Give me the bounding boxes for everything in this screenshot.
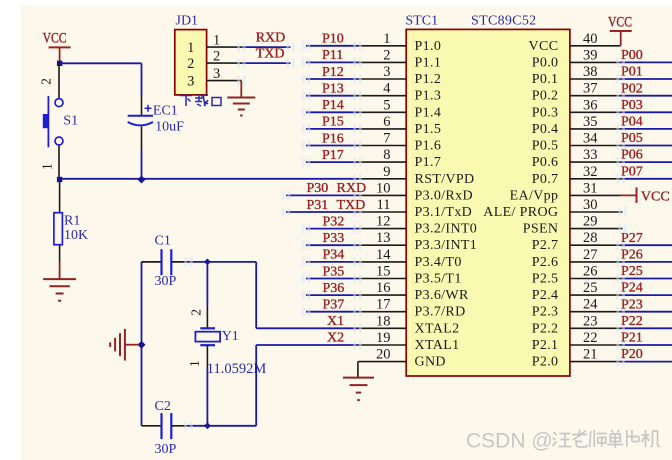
svg-text:P2.5: P2.5 <box>532 272 559 287</box>
svg-text:19: 19 <box>376 330 391 346</box>
svg-text:JD1: JD1 <box>176 13 199 28</box>
svg-text:P04: P04 <box>621 115 643 130</box>
svg-text:36: 36 <box>583 97 598 113</box>
svg-text:4: 4 <box>383 81 391 97</box>
svg-text:RXD: RXD <box>256 31 286 46</box>
svg-text:30: 30 <box>583 197 598 213</box>
svg-text:P14: P14 <box>322 98 344 113</box>
svg-text:P01: P01 <box>621 65 643 80</box>
svg-text:P2.2: P2.2 <box>532 321 559 336</box>
svg-text:23: 23 <box>583 313 598 329</box>
svg-text:C1: C1 <box>155 234 171 249</box>
svg-text:28: 28 <box>583 230 598 246</box>
svg-text:1: 1 <box>187 40 194 56</box>
svg-text:22: 22 <box>583 330 598 346</box>
svg-text:P1.0: P1.0 <box>415 39 442 54</box>
svg-text:P11: P11 <box>322 48 343 63</box>
svg-text:14: 14 <box>376 247 391 263</box>
svg-text:P25: P25 <box>621 264 643 279</box>
svg-text:P1.4: P1.4 <box>415 105 442 120</box>
svg-text:38: 38 <box>583 64 598 80</box>
svg-text:P32: P32 <box>323 214 345 229</box>
svg-text:VCC: VCC <box>641 189 670 204</box>
svg-text:EC1: EC1 <box>153 104 178 119</box>
svg-text:P00: P00 <box>621 48 643 63</box>
svg-text:21: 21 <box>583 347 598 363</box>
svg-text:C2: C2 <box>155 399 171 414</box>
svg-text:P0.5: P0.5 <box>532 139 559 154</box>
svg-text:P0.2: P0.2 <box>532 89 559 104</box>
svg-text:P0.4: P0.4 <box>532 122 559 137</box>
svg-text:1: 1 <box>40 163 55 170</box>
svg-text:P2.0: P2.0 <box>532 355 559 370</box>
svg-text:TXD: TXD <box>256 47 285 62</box>
svg-text:29: 29 <box>583 214 598 230</box>
svg-text:P03: P03 <box>621 98 643 113</box>
svg-text:P21: P21 <box>621 331 643 346</box>
svg-text:P20: P20 <box>621 347 643 362</box>
svg-text:3: 3 <box>383 64 390 80</box>
svg-text:13: 13 <box>376 230 391 246</box>
svg-text:20: 20 <box>376 347 391 363</box>
svg-text:2: 2 <box>213 48 220 64</box>
svg-text:R1: R1 <box>64 214 80 229</box>
svg-text:P34: P34 <box>323 248 345 263</box>
svg-text:P22: P22 <box>621 314 643 329</box>
svg-text:P3.0/RxD: P3.0/RxD <box>415 188 473 203</box>
svg-text:3: 3 <box>187 74 194 90</box>
svg-text:11.0592M: 11.0592M <box>207 361 267 377</box>
svg-text:P35: P35 <box>323 264 345 279</box>
svg-text:6: 6 <box>383 114 390 130</box>
svg-text:15: 15 <box>376 264 391 280</box>
svg-text:P3.3/INT1: P3.3/INT1 <box>415 238 478 253</box>
svg-text:P1.5: P1.5 <box>415 122 442 137</box>
svg-text:GND: GND <box>415 355 446 370</box>
svg-text:35: 35 <box>583 114 598 130</box>
svg-text:P1.3: P1.3 <box>415 89 442 104</box>
svg-text:P2.1: P2.1 <box>532 338 559 353</box>
svg-text:P33: P33 <box>323 231 345 246</box>
svg-text:34: 34 <box>583 131 598 147</box>
svg-text:VCC: VCC <box>43 31 67 47</box>
svg-text:10K: 10K <box>64 228 88 243</box>
svg-text:P17: P17 <box>322 148 344 163</box>
svg-text:XTAL2: XTAL2 <box>415 321 460 336</box>
svg-text:33: 33 <box>583 147 598 163</box>
svg-text:P05: P05 <box>621 131 643 146</box>
svg-text:18: 18 <box>376 313 391 329</box>
svg-text:P26: P26 <box>621 248 643 263</box>
svg-text:17: 17 <box>376 297 391 313</box>
svg-text:RST/VPD: RST/VPD <box>415 172 475 187</box>
svg-text:P0.1: P0.1 <box>532 72 559 87</box>
svg-text:10uF: 10uF <box>155 120 184 135</box>
svg-text:3: 3 <box>213 66 220 82</box>
svg-text:X1: X1 <box>327 314 344 329</box>
svg-text:30P: 30P <box>155 442 177 457</box>
svg-text:P13: P13 <box>322 82 344 97</box>
svg-text:P1.2: P1.2 <box>415 72 442 87</box>
svg-text:30P: 30P <box>155 274 177 289</box>
svg-text:P37: P37 <box>323 298 345 313</box>
svg-text:2: 2 <box>187 56 194 72</box>
svg-text:1: 1 <box>213 32 220 48</box>
svg-text:31: 31 <box>583 180 598 196</box>
svg-text:1: 1 <box>383 31 390 47</box>
svg-text:12: 12 <box>376 214 391 230</box>
svg-text:P3.7/RD: P3.7/RD <box>415 305 466 320</box>
svg-text:CSDN @: CSDN @ <box>466 429 553 452</box>
svg-text:TXD: TXD <box>337 198 366 213</box>
svg-text:P10: P10 <box>322 32 344 47</box>
svg-text:P06: P06 <box>621 148 643 163</box>
svg-text:37: 37 <box>583 81 598 97</box>
svg-text:P23: P23 <box>621 297 643 312</box>
svg-text:P3.4/T0: P3.4/T0 <box>415 255 462 270</box>
svg-text:9: 9 <box>383 164 390 180</box>
svg-text:PSEN: PSEN <box>523 222 559 237</box>
svg-text:40: 40 <box>583 31 598 47</box>
svg-text:P3.6/WR: P3.6/WR <box>415 288 469 303</box>
svg-text:Y1: Y1 <box>222 329 239 344</box>
svg-text:25: 25 <box>583 280 598 296</box>
svg-text:P1.1: P1.1 <box>415 55 442 70</box>
svg-text:P15: P15 <box>322 115 344 130</box>
svg-text:P02: P02 <box>621 81 643 96</box>
svg-text:VCC: VCC <box>529 39 559 54</box>
svg-text:11: 11 <box>377 197 391 213</box>
svg-text:27: 27 <box>583 247 598 263</box>
svg-text:P07: P07 <box>621 164 643 179</box>
svg-text:ALE/ PROG: ALE/ PROG <box>483 205 558 220</box>
svg-text:P1.7: P1.7 <box>415 155 442 170</box>
svg-text:P16: P16 <box>322 131 344 146</box>
svg-text:STC1: STC1 <box>405 14 438 29</box>
svg-text:P3.2/INT0: P3.2/INT0 <box>415 222 478 237</box>
svg-text:VCC: VCC <box>608 15 632 31</box>
svg-text:P2.4: P2.4 <box>532 288 559 303</box>
svg-text:P3.1/TxD: P3.1/TxD <box>415 205 473 220</box>
svg-text:P1.6: P1.6 <box>415 139 442 154</box>
svg-text:5: 5 <box>383 97 390 113</box>
svg-text:P0.3: P0.3 <box>532 105 559 120</box>
svg-text:EA/Vpp: EA/Vpp <box>510 188 559 203</box>
svg-text:2: 2 <box>383 47 390 63</box>
svg-text:10: 10 <box>376 180 391 196</box>
svg-text:26: 26 <box>583 264 598 280</box>
svg-text:8: 8 <box>383 147 390 163</box>
svg-text:P2.3: P2.3 <box>532 305 559 320</box>
svg-text:RXD: RXD <box>337 181 367 196</box>
svg-text:P12: P12 <box>322 65 344 80</box>
svg-text:P0.6: P0.6 <box>532 155 559 170</box>
svg-text:STC89C52: STC89C52 <box>471 14 536 29</box>
svg-text:1: 1 <box>187 360 202 367</box>
svg-text:P3.5/T1: P3.5/T1 <box>415 272 462 287</box>
svg-text:P31: P31 <box>307 198 329 213</box>
svg-text:16: 16 <box>376 280 391 296</box>
svg-text:S1: S1 <box>63 114 78 129</box>
svg-text:P2.7: P2.7 <box>532 238 559 253</box>
svg-text:24: 24 <box>583 297 598 313</box>
svg-text:P36: P36 <box>323 281 345 296</box>
svg-text:7: 7 <box>383 131 390 147</box>
svg-text:39: 39 <box>583 47 598 63</box>
svg-text:P30: P30 <box>307 181 329 196</box>
svg-text:32: 32 <box>583 164 598 180</box>
svg-text:P24: P24 <box>621 281 643 296</box>
svg-text:2: 2 <box>189 309 204 316</box>
svg-text:P0.7: P0.7 <box>532 172 559 187</box>
svg-text:XTAL1: XTAL1 <box>415 338 460 353</box>
svg-text:2: 2 <box>39 78 54 85</box>
svg-text:P0.0: P0.0 <box>532 55 559 70</box>
svg-text:X2: X2 <box>327 331 344 346</box>
svg-text:P2.6: P2.6 <box>532 255 559 270</box>
